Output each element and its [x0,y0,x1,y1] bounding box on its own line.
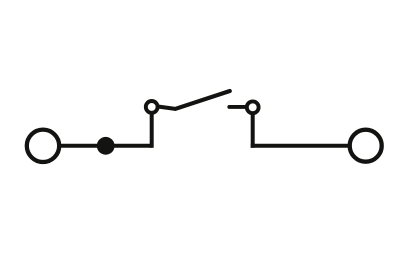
wire: riser to right terminal [251,144,350,148]
terminal T1 (left screw clamp) [27,130,59,162]
wire: left riser up to contact [150,113,154,148]
contact pivot P1 (left, open circle) [146,101,158,113]
contact stub wire (right) [229,105,246,109]
contact P2 (right, open circle) [247,101,259,113]
node: test junction dot [97,137,115,155]
terminal T2 (right screw clamp) [350,130,382,162]
wire: left terminal to riser [59,144,152,148]
wire: right riser down [251,114,255,148]
switch blade (knife disconnect, open) [159,91,230,109]
